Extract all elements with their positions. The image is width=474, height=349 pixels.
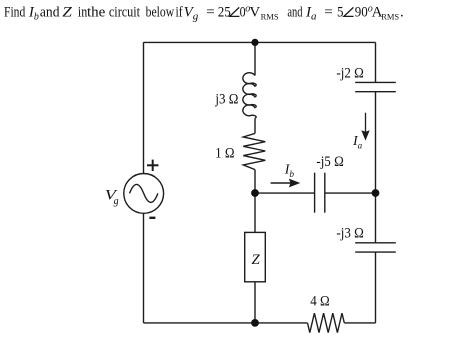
svg-text:Z: Z [62,4,73,20]
svg-text:-j3 Ω: -j3 Ω [336,226,363,242]
svg-text:Find: Find [4,3,26,20]
svg-text:Ia: Ia [305,4,317,22]
svg-text:5: 5 [337,3,344,20]
svg-text:Ib: Ib [28,4,39,22]
svg-text:=: = [206,4,214,20]
svg-text:if: if [176,3,184,20]
svg-text:and: and [40,4,60,21]
svg-text:V: V [249,4,260,20]
svg-text:below: below [146,3,175,20]
svg-text:RMS: RMS [381,12,399,22]
svg-text:-j2 Ω: -j2 Ω [336,66,363,82]
svg-text:Z: Z [251,252,260,268]
svg-text:RMS: RMS [261,12,279,22]
svg-text:=: = [324,4,332,20]
svg-text:and: and [287,2,303,19]
svg-text:j3 Ω: j3 Ω [214,92,238,108]
svg-text:Ia: Ia [352,134,363,150]
svg-text:in: in [78,3,88,20]
svg-text:-j5 Ω: -j5 Ω [316,155,343,171]
svg-text:.: . [400,4,404,20]
svg-text:90: 90 [355,3,368,20]
svg-text:1 Ω: 1 Ω [215,146,234,162]
svg-text:g: g [114,196,119,207]
svg-text:circuit: circuit [109,3,140,19]
svg-text:Ib: Ib [284,163,295,179]
svg-text:4 Ω: 4 Ω [310,294,329,310]
svg-text:Vg: Vg [184,4,199,22]
svg-text:the: the [87,4,106,20]
svg-text:25: 25 [218,3,231,20]
